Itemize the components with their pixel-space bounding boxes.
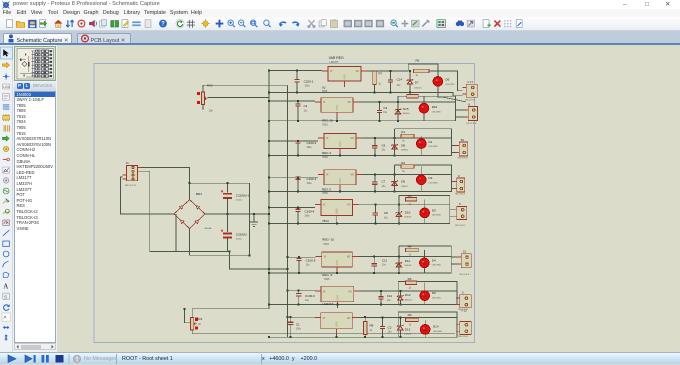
wire row1 input rail: [269, 70, 322, 72]
svg-text:VI: VI: [323, 317, 326, 320]
wire row7 regulator ground stub: [336, 305, 338, 307]
svg-text:D9: D9: [401, 180, 405, 184]
junction row4 bus tap: [268, 176, 270, 178]
wire row5 group box: [399, 196, 450, 224]
wire row6 group box: [399, 246, 451, 273]
junction D7 bottom: [409, 91, 411, 93]
wire row8 terminal feed 1: [456, 324, 457, 326]
junction row7 cap-out bottom: [380, 304, 382, 306]
svg-text:7824: 7824: [322, 219, 329, 223]
junction cap1 top: [227, 182, 229, 184]
svg-text:TBLOCK-I2: TBLOCK-I2: [458, 336, 469, 338]
junction row5 bus tap: [268, 207, 270, 209]
capacitor C2200U (electrolytic): [221, 214, 232, 252]
svg-text:D16: D16: [432, 105, 438, 109]
junction row5 cap-in bottom: [297, 223, 299, 225]
svg-text:D6: D6: [446, 77, 450, 81]
svg-text:C3: C3: [383, 106, 387, 110]
svg-text:REG -15: REG -15: [322, 238, 334, 242]
voltage regulator U1 LM317T: [322, 67, 367, 88]
svg-text:D7: D7: [415, 81, 419, 85]
junction row6 cap-in bottom: [298, 272, 300, 274]
junction C14 bottom: [390, 91, 392, 93]
junction row3 cap-in top: [297, 140, 299, 142]
svg-text:VO: VO: [347, 256, 351, 259]
svg-text:7815: 7815: [322, 122, 328, 126]
junction row2 zener bottom: [397, 120, 399, 122]
svg-text:RV1: RV1: [197, 317, 203, 321]
wire row3 group box: [395, 129, 452, 156]
junction row4 cap-out top: [374, 173, 376, 175]
wire bridge top input: [189, 183, 191, 200]
wire row5 led bottom stub: [424, 218, 426, 224]
svg-text:VI: VI: [323, 101, 326, 104]
capacitor C100-3: [295, 177, 300, 192]
svg-text:55: 55: [461, 138, 465, 142]
junction row6 reg gnd: [336, 272, 338, 274]
wire row5 terminal feed 1: [450, 209, 453, 211]
wire row3 output rail: [362, 137, 452, 139]
wire row5 terminal feed 2: [450, 215, 453, 217]
junction row5 zener top: [398, 203, 400, 205]
svg-text:C8: C8: [384, 211, 388, 215]
capacitor C100-5: [296, 257, 301, 273]
svg-text:C100-5: C100-5: [306, 259, 316, 263]
terminal block V17: [462, 84, 477, 97]
ground: [250, 214, 258, 227]
capacitor C3: [377, 102, 382, 121]
svg-text:LED-RED: LED-RED: [433, 331, 443, 333]
wire negative bus: [287, 85, 289, 337]
wire row8 led top stub: [424, 320, 426, 325]
svg-text:1N4001: 1N4001: [401, 186, 409, 188]
svg-text:7805: 7805: [322, 191, 328, 195]
svg-text:VO: VO: [351, 137, 355, 140]
wire row2 led top stub: [423, 96, 425, 103]
wire row8 output rail: [358, 317, 457, 319]
junction RV1 loop: [183, 308, 185, 310]
junction row8 cap-in bottom: [290, 336, 292, 338]
svg-text:1N4001: 1N4001: [414, 87, 422, 89]
svg-text:VI: VI: [330, 70, 333, 73]
terminal block J7: [456, 295, 471, 308]
voltage regulator U7 REG -9: [315, 286, 360, 308]
wire row2 input rail: [269, 100, 315, 102]
terminal block J6: [457, 254, 471, 268]
svg-text:D14: D14: [433, 325, 439, 329]
potentiometer RV2: [201, 92, 207, 105]
svg-text:C7: C7: [382, 180, 386, 184]
wire row7 output rail: [360, 290, 457, 292]
wire row5 regulator ground stub: [336, 221, 338, 224]
wire row6 terminal feed 2: [451, 263, 457, 265]
diode D13: [397, 318, 404, 338]
capacitor C12: [378, 291, 383, 304]
svg-text:TBLOCK-I2: TBLOCK-I2: [455, 225, 466, 227]
junction row1 capin bottom: [296, 91, 298, 93]
svg-text:BR1: BR1: [196, 192, 202, 196]
wire row1 output rail: [367, 70, 408, 72]
junction row8 cap-out top: [382, 317, 384, 319]
junction row5 cap-out top: [374, 203, 376, 205]
junction negative bus feed: [287, 268, 289, 270]
voltage regulator U6 REG -15: [316, 252, 359, 273]
svg-text:VO: VO: [351, 174, 355, 177]
junction row8 cap-in top: [290, 316, 292, 318]
capacitor C14: [388, 71, 393, 93]
junction row3 cap-out bottom: [374, 154, 376, 156]
svg-text:LED-RED: LED-RED: [446, 84, 456, 86]
svg-text:7915: 7915: [323, 242, 329, 246]
junction row6 cap-out bottom: [373, 272, 375, 274]
wire R7 bottom stub: [374, 85, 376, 93]
svg-text:V 17: V 17: [467, 80, 473, 84]
diode D10: [396, 204, 403, 223]
wire row5 led top stub: [424, 199, 426, 208]
junction row1 bus tap: [268, 70, 270, 72]
junction bridge top: [189, 182, 191, 184]
svg-text:LM337T: LM337T: [322, 302, 333, 306]
svg-text:R3: R3: [408, 194, 412, 198]
svg-text:2200u: 2200u: [236, 239, 243, 241]
wire row5 input rail: [269, 207, 315, 209]
junction row6 cap-in top: [298, 256, 300, 258]
wire row6 led bottom stub: [423, 268, 425, 273]
junction row8 cap-out bottom: [382, 336, 384, 338]
svg-text:C4: C4: [304, 104, 308, 108]
junction row3 reg gnd: [339, 154, 341, 156]
junction row8 bus tap: [287, 316, 289, 318]
svg-text:TBLOCK-I2: TBLOCK-I2: [455, 194, 466, 196]
wire R8 bottom stub: [364, 334, 366, 337]
wire row2 group box: [398, 96, 456, 121]
svg-text:C12: C12: [387, 294, 393, 298]
junction row3 cap-out top: [374, 137, 376, 139]
resistor R2: [401, 165, 414, 168]
svg-text:R9: R9: [408, 313, 412, 317]
diode D8: [391, 138, 398, 155]
svg-text:VO: VO: [348, 101, 352, 104]
svg-text:1N4001: 1N4001: [404, 334, 412, 336]
svg-text:C14: C14: [397, 78, 403, 82]
svg-text:10k: 10k: [209, 109, 214, 113]
svg-text:D3: D3: [432, 208, 436, 212]
svg-text:100u: 100u: [305, 86, 311, 88]
diode D15: [395, 102, 402, 121]
LED D16: [419, 103, 429, 113]
wire row6 input rail: [288, 256, 316, 258]
svg-text:D15: D15: [403, 107, 409, 111]
junction row4 cap-out bottom: [374, 191, 376, 193]
wire D6 to terminal 2: [438, 86, 466, 102]
wire row4 terminal feed 1: [452, 181, 453, 183]
connector J1: [123, 166, 142, 181]
terminal block J8: [456, 322, 471, 335]
junction bridge to bus: [268, 213, 270, 215]
wire row8 led bottom stub: [424, 334, 426, 337]
wire to negative bus: [230, 252, 288, 270]
wire row3 led bottom stub: [420, 148, 422, 155]
capacitor C100-1: [294, 71, 299, 93]
svg-text:V 12: V 12: [461, 308, 467, 312]
terminal block J5: [453, 207, 467, 220]
svg-text:1N4001: 1N4001: [401, 150, 409, 152]
wire row2 terminal feed 2: [456, 116, 465, 118]
svg-text:D8: D8: [401, 143, 405, 147]
svg-text:100u: 100u: [296, 329, 302, 331]
svg-text:7905: 7905: [324, 277, 330, 281]
svg-text:VO: VO: [347, 317, 351, 320]
wire RV1 top loop: [192, 309, 269, 318]
wire J1 to bridge AC1: [120, 177, 173, 214]
wire row2 terminal feed 1: [456, 109, 465, 111]
svg-text:R4: R4: [408, 245, 412, 249]
capacitor C6: [372, 138, 377, 155]
resistor R8: [364, 322, 367, 335]
wire RV2 bottom stub: [202, 104, 204, 108]
junction R8 bottom: [364, 336, 366, 338]
wire row8 terminal feed 2: [456, 330, 457, 332]
svg-text:VI: VI: [324, 256, 327, 259]
node marker (unrouted pin): [195, 318, 198, 321]
svg-text:LED-RED: LED-RED: [432, 215, 442, 217]
wire row7 led bottom stub: [424, 301, 426, 305]
junction D7 top: [409, 70, 411, 72]
svg-text:VO: VO: [348, 290, 352, 293]
junction row6 ground bus: [268, 272, 270, 274]
svg-text:1N4001: 1N4001: [404, 265, 412, 267]
wire row3 ground rail: [269, 154, 452, 156]
wire R6 to terminal V17: [429, 71, 462, 91]
svg-text:TBLOCK-I2: TBLOCK-I2: [459, 274, 470, 276]
wire row4 led top stub: [420, 167, 422, 176]
junction row4 ground bus: [268, 191, 270, 193]
svg-text:LED-RED: LED-RED: [429, 146, 439, 148]
capacitor C7: [372, 174, 377, 191]
junction row2 ground bus: [268, 120, 270, 122]
LED D3: [420, 208, 430, 218]
svg-text:100u: 100u: [307, 183, 313, 185]
wire row7 terminal feed 2: [456, 304, 457, 306]
wire row8 ground rail: [269, 336, 457, 338]
junction row4 zener top: [394, 173, 396, 175]
wire row4 led bottom stub: [420, 185, 422, 192]
svg-text:TBLOCK-I2: TBLOCK-I2: [466, 123, 477, 125]
terminal block J4: [453, 178, 465, 192]
junction row4 reg gnd: [339, 191, 341, 193]
svg-text:REG 9: REG 9: [322, 151, 331, 155]
svg-text:C100-3: C100-3: [307, 177, 317, 181]
terminal block J3: [455, 142, 467, 156]
potentiometer RV1: [191, 318, 197, 331]
wire J1 pin2 down: [141, 171, 176, 251]
junction row8 zener bottom: [399, 336, 401, 338]
resistor R9: [405, 318, 418, 321]
junction row3 ground bus: [268, 154, 270, 156]
svg-text:VI: VI: [323, 290, 326, 293]
wire row2 regulator ground stub: [336, 117, 338, 121]
svg-text:D1: D1: [429, 140, 433, 144]
capacitor C100-2: [295, 140, 300, 155]
junction row3 bus tap: [268, 140, 270, 142]
svg-text:1N4001: 1N4001: [404, 217, 412, 219]
voltage regulator U4 REG 5: [318, 170, 362, 191]
svg-text:VI: VI: [326, 174, 329, 177]
wire row5 ground rail: [269, 223, 450, 225]
junction row1 ground bus: [268, 91, 270, 93]
wire row1 ground rail: [269, 92, 462, 95]
junction neg rail: [229, 251, 231, 253]
wire RV2 wiper to bus: [208, 96, 269, 98]
wire row4 ground rail: [269, 191, 452, 193]
junction row7 cap-in top: [298, 290, 300, 292]
svg-text:VI: VI: [323, 204, 326, 207]
wire RV1 long bottom wire: [192, 330, 455, 334]
wire row4 terminal feed 2: [452, 188, 453, 190]
LED D1: [417, 139, 427, 149]
junction row7 zener top: [399, 290, 401, 292]
svg-text:REG 15: REG 15: [322, 119, 333, 123]
junction row3 cap-in bottom: [297, 154, 299, 156]
resistor R5: [405, 281, 416, 284]
LED D5: [420, 291, 430, 301]
node marker (unrouted pin): [197, 92, 200, 95]
junction row3 zener bottom: [394, 154, 396, 156]
wire J1 pin1 to DC+ node: [141, 168, 249, 256]
junction row5 cap-out bottom: [374, 223, 376, 225]
resistor R3: [405, 198, 416, 201]
svg-text:7809: 7809: [322, 155, 328, 159]
svg-text:C2200U: C2200U: [236, 232, 247, 236]
resistor R4: [405, 248, 418, 251]
svg-text:C1: C1: [296, 322, 300, 326]
svg-text:J1: J1: [126, 161, 130, 165]
resistor R6: [414, 69, 430, 72]
svg-text:1N4001: 1N4001: [405, 300, 413, 302]
svg-text:VO: VO: [347, 204, 351, 207]
svg-text:TBLOCK-I2: TBLOCK-I2: [457, 158, 468, 160]
wire row8 input rail: [288, 316, 315, 318]
diode D9: [391, 174, 398, 191]
svg-text:TBLOCK-I2: TBLOCK-I2: [465, 100, 476, 102]
junction row5 zener bottom: [398, 223, 400, 225]
junction row3 zener top: [394, 137, 396, 139]
wire bridge + output: [205, 213, 269, 215]
junction R7 gnd: [374, 91, 376, 93]
resistor R row2: [407, 95, 418, 98]
wire row2 led bottom stub: [423, 113, 425, 121]
resistor R7: [373, 71, 376, 85]
schematic sheet border: [94, 63, 475, 342]
junction row5 reg gnd: [336, 223, 338, 225]
svg-text:C100-2: C100-2: [307, 141, 317, 145]
junction row5 ground bus: [268, 223, 270, 225]
diode D12: [397, 291, 404, 304]
resistor R1: [401, 134, 414, 137]
svg-text:D4: D4: [432, 258, 436, 262]
voltage regulator U8 LM337T: [315, 313, 359, 335]
junction DC+ corner: [248, 254, 250, 256]
junction row2 cap-in top: [297, 100, 299, 102]
junction row7 reg gnd: [336, 304, 338, 306]
svg-text:D13: D13: [405, 327, 411, 331]
junction row7 zener bottom: [399, 304, 401, 306]
wire row4 regulator ground stub: [339, 190, 341, 192]
wire row8 regulator ground stub: [336, 334, 338, 338]
svg-text:R5: R5: [408, 277, 412, 281]
wire row8 group box: [398, 312, 457, 337]
junction C14 top: [390, 70, 392, 72]
svg-text:R6: R6: [416, 59, 420, 63]
wire row3 regulator ground stub: [339, 154, 341, 156]
svg-text:VI: VI: [326, 137, 329, 140]
node marker (unrouted pin): [197, 101, 200, 104]
junction row7 cap-in bottom: [298, 304, 300, 306]
wire positive bus: [268, 71, 270, 309]
svg-text:100u: 100u: [307, 147, 313, 149]
junction row4 zener bottom: [394, 191, 396, 193]
capacitor C1: [288, 317, 293, 337]
wire negative rail lower: [176, 251, 230, 253]
LED D6: [433, 77, 443, 87]
junction row4 cap-in bottom: [297, 191, 299, 193]
svg-text:C100-1: C100-1: [304, 80, 314, 84]
junction row7 cap-out top: [380, 290, 382, 292]
node marker RV2 unconnected pin: [202, 108, 204, 110]
junction row2 bus tap: [268, 100, 270, 102]
svg-text:C100-4: C100-4: [305, 209, 315, 213]
bridge rectifier BR1: [174, 200, 205, 229]
wire row6 ground rail: [269, 272, 451, 274]
wire row2 ground rail: [269, 120, 456, 122]
svg-text:?: ?: [161, 22, 165, 28]
voltage regulator U5 7824: [315, 200, 359, 222]
wire row7 group box: [398, 282, 457, 305]
junction row6 bus tap: [287, 256, 289, 258]
LED D14: [420, 325, 430, 335]
svg-text:LED-RED: LED-RED: [432, 298, 442, 300]
wire bridge left drop: [175, 214, 177, 252]
svg-text:VO: VO: [356, 70, 360, 73]
svg-text:GBU8A: GBU8A: [204, 227, 212, 230]
capacitor C100-6: [296, 291, 301, 305]
capacitor C4: [295, 101, 300, 121]
svg-text:TBLOCK-I4: TBLOCK-I4: [125, 185, 137, 187]
svg-text:LBL: LBL: [3, 85, 9, 89]
wire row3 input rail: [269, 140, 318, 142]
wire stub: [374, 70, 376, 72]
wire row5 output rail: [359, 203, 450, 205]
svg-text:REG -9: REG -9: [322, 273, 332, 277]
junction row7 ground bus: [268, 304, 270, 306]
svg-text:LED-RED: LED-RED: [429, 182, 439, 184]
LED D4: [420, 258, 430, 268]
node marker (unrouted pin): [195, 327, 198, 330]
svg-text:R7: R7: [378, 71, 382, 75]
svg-text:15: 15: [463, 249, 467, 253]
wire row4 group box: [395, 165, 452, 192]
svg-text:LED-RED: LED-RED: [432, 265, 442, 267]
svg-text:R1: R1: [401, 130, 405, 134]
wire RV2 top to negative bus: [203, 85, 288, 92]
capacitor C100-4: [295, 208, 300, 224]
junction row8 ground bus: [268, 336, 270, 338]
svg-text:R2: R2: [401, 161, 405, 165]
wire R8 top stub: [364, 317, 366, 321]
wire row7 led top stub: [424, 283, 426, 291]
svg-text:C11: C11: [382, 258, 388, 262]
junction row1 capin top: [296, 70, 298, 72]
